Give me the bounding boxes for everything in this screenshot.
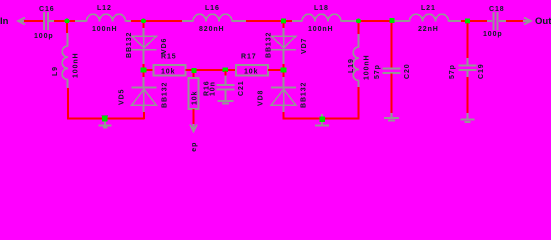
svg-text:C20: C20	[404, 63, 411, 79]
wire node H to node J	[197, 69, 224, 71]
wire node J to R17	[228, 69, 236, 71]
wire node H down to R16	[193, 73, 195, 78]
node Out port arrow	[524, 18, 531, 25]
wire C18 to Out arrow	[499, 20, 506, 22]
wire R15 to node H	[186, 69, 193, 71]
svg-text:10k: 10k	[161, 69, 175, 76]
capacitor C16	[43, 12, 45, 30]
inductor L19	[353, 47, 359, 81]
svg-text:100nH: 100nH	[92, 26, 118, 33]
capacitor C20	[383, 68, 401, 70]
node D junction	[356, 18, 361, 23]
varactor VD5	[132, 87, 157, 89]
wire L21 to node F	[449, 20, 462, 22]
wire VD6 to node G	[143, 50, 145, 64]
node A junction	[64, 18, 69, 23]
wire L12 to node B	[126, 20, 132, 22]
svg-text:L18: L18	[314, 5, 329, 12]
svg-text:820nH: 820nH	[199, 26, 225, 33]
svg-text:R15: R15	[161, 54, 177, 61]
svg-text:VD5: VD5	[119, 89, 126, 105]
node C junction	[281, 19, 286, 24]
wire R17 to node K	[268, 69, 281, 71]
svg-text:10k: 10k	[244, 69, 258, 76]
wire VD7 to node K	[283, 50, 285, 64]
svg-text:L12: L12	[97, 5, 112, 12]
wire node F to C18	[470, 20, 487, 22]
svg-text:10k: 10k	[192, 91, 199, 105]
svg-text:L21: L21	[421, 5, 436, 12]
wire left bottom rail	[67, 118, 145, 120]
wire node B to L16	[146, 20, 182, 22]
varactor VD7	[283, 36, 285, 49]
wire node C to L18	[286, 20, 292, 22]
wire L18 to node D	[341, 20, 356, 22]
svg-text:BB132: BB132	[126, 32, 133, 58]
ground C19	[467, 113, 469, 119]
node J junction	[223, 68, 229, 73]
ground C21	[225, 90, 227, 100]
ground C20	[391, 113, 393, 117]
ground right rail	[321, 114, 323, 117]
wire node A down to L9	[66, 23, 68, 33]
svg-text:C16: C16	[39, 6, 55, 13]
wire R16 to tuning port	[193, 109, 195, 126]
wire node B down to VD6	[143, 23, 145, 28]
resistor R17	[236, 65, 268, 76]
svg-text:VD7: VD7	[301, 38, 308, 54]
varactor VD6	[143, 36, 145, 49]
wire VD5 to left rail	[143, 105, 145, 112]
node G junction	[141, 68, 147, 73]
svg-text:57p: 57p	[449, 64, 456, 79]
svg-text:BB132: BB132	[162, 82, 169, 108]
svg-text:C21: C21	[238, 80, 245, 96]
wire node D to node E	[361, 20, 390, 22]
wire node G to R15	[147, 69, 154, 71]
svg-text:C18: C18	[489, 6, 505, 13]
node K junction	[281, 68, 287, 73]
svg-text:L9: L9	[52, 66, 59, 76]
svg-text:R17: R17	[241, 54, 257, 61]
svg-text:L19: L19	[348, 58, 355, 73]
inductor L18	[302, 14, 341, 21]
svg-text:22nH: 22nH	[418, 26, 439, 33]
wire node C down to VD7	[283, 23, 285, 28]
inductor L9	[62, 46, 68, 80]
inductor L12	[87, 14, 126, 21]
svg-text:100p: 100p	[483, 31, 503, 38]
svg-text:C19: C19	[478, 63, 485, 79]
wire L16 to node C	[232, 20, 246, 22]
node In port arrow	[18, 18, 25, 25]
svg-text:10n: 10n	[210, 81, 217, 96]
svg-text:L16: L16	[205, 5, 220, 12]
svg-text:BB132: BB132	[266, 32, 273, 58]
wire right bottom rail	[283, 118, 360, 120]
wire L9 to left rail	[67, 80, 69, 89]
svg-text:Out: Out	[535, 16, 551, 27]
svg-text:57p: 57p	[374, 64, 381, 79]
wire node D down to L19	[358, 23, 360, 34]
wire In arrow to C16	[24, 20, 43, 22]
ground left rail	[102, 115, 109, 117]
capacitor C18	[493, 12, 495, 30]
node tuning port arrow	[190, 125, 197, 132]
svg-text:100nH: 100nH	[364, 54, 371, 80]
wire node E to L21	[395, 20, 410, 22]
node H junction	[192, 68, 197, 73]
wire node G to VD5	[143, 73, 145, 78]
wire node K to VD8	[283, 73, 285, 78]
svg-text:100nH: 100nH	[73, 52, 80, 78]
wire L19 to right rail	[358, 81, 360, 88]
svg-text:BB132: BB132	[301, 82, 308, 108]
wire node A to L12	[70, 20, 76, 22]
resistor R16	[189, 78, 199, 109]
wire C20 to ground	[391, 74, 393, 114]
wire node E down to C20	[391, 23, 393, 68]
wire C19 to ground	[467, 71, 469, 78]
svg-text:Fпер: Fпер	[191, 142, 198, 153]
resistor R15	[154, 65, 186, 76]
node E junction	[390, 18, 395, 23]
wire VD8 to right rail	[283, 105, 285, 112]
inductor L16	[193, 14, 232, 21]
wire node F down to C19	[467, 23, 469, 58]
svg-text:VD8: VD8	[258, 90, 265, 106]
capacitor C21	[225, 71, 227, 76]
svg-text:100nH: 100nH	[308, 26, 334, 33]
node F junction	[465, 19, 470, 24]
inductor L21	[410, 14, 449, 21]
capacitor C19	[459, 65, 477, 67]
wire C16 to node A	[49, 20, 54, 22]
svg-text:In: In	[0, 16, 9, 27]
svg-text:100p: 100p	[34, 33, 54, 40]
svg-text:VD6: VD6	[161, 38, 168, 54]
varactor VD8	[271, 87, 296, 89]
node B junction	[141, 18, 146, 23]
